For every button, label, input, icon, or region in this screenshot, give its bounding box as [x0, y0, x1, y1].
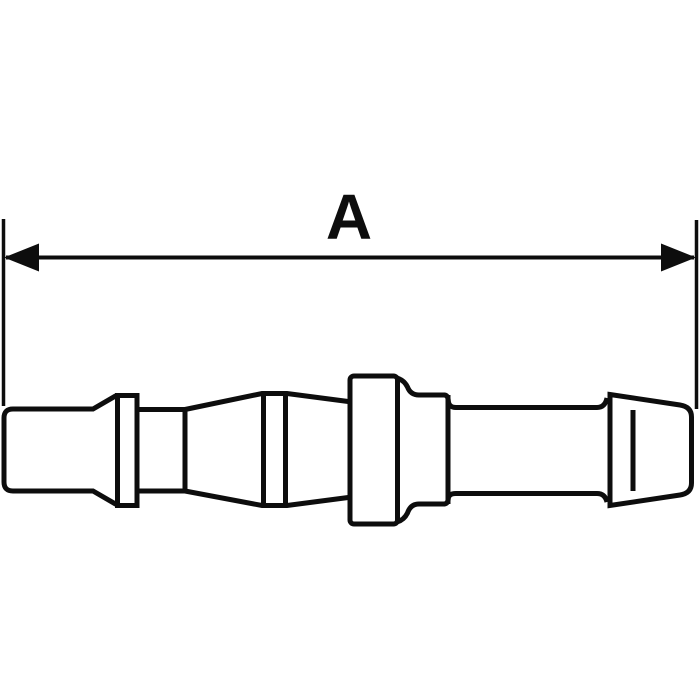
svg-text:A: A [326, 181, 372, 253]
